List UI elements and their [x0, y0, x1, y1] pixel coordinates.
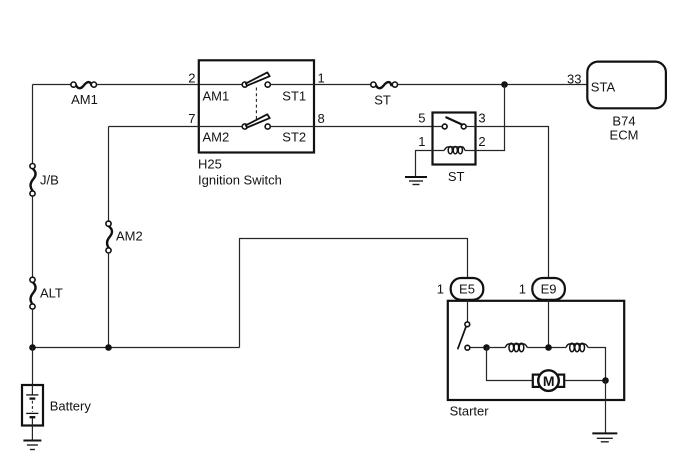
svg-text:33: 33 [567, 72, 581, 87]
wire bus to E5 [240, 239, 468, 348]
wire pin7 to AM2 vertical [109, 126, 243, 128]
wire junction to coil1 [487, 347, 506, 349]
fuse ALT [30, 277, 63, 309]
wire E9 into starter [548, 300, 550, 348]
starter switch top contact [465, 322, 470, 327]
svg-text:AM1: AM1 [203, 88, 230, 103]
svg-text:ECM: ECM [610, 128, 639, 143]
fuse J/B [30, 164, 59, 197]
junction node starter left [483, 344, 490, 351]
svg-text:2: 2 [478, 134, 485, 149]
junction node battery/bus [29, 344, 36, 351]
starter coil 2 [566, 343, 588, 351]
starter switch lever [458, 327, 466, 348]
svg-text:ST: ST [374, 92, 391, 107]
fuse ST [371, 82, 398, 107]
wire coil2 to right branch [588, 348, 605, 381]
wire AM2 to bus [108, 253, 110, 348]
ignition switch box H25 [199, 60, 314, 152]
wire left branch to motor [487, 348, 533, 381]
svg-text:ST2: ST2 [282, 129, 306, 144]
relay contact wire right [466, 126, 475, 128]
wire contact to junction [470, 347, 487, 349]
wire relay pin3 to E9 [476, 127, 549, 279]
junction node motor right [602, 377, 609, 384]
motor M [533, 370, 564, 391]
svg-text:Ignition Switch: Ignition Switch [198, 173, 282, 188]
svg-text:M: M [543, 373, 555, 389]
svg-text:E5: E5 [459, 282, 475, 297]
battery B1 [22, 385, 91, 426]
svg-text:J/B: J/B [40, 172, 59, 187]
wire fuse ST to ECM [398, 84, 588, 86]
wire ALT to bus [32, 309, 34, 347]
svg-text:H25: H25 [198, 157, 222, 172]
svg-text:AM1: AM1 [71, 92, 98, 107]
wire AM2 vertical upper [108, 127, 110, 222]
fuse AM2 [106, 221, 143, 253]
switch AM2-ST2 contacts [242, 124, 247, 129]
wire E5 into starter [467, 300, 469, 322]
relay coil [433, 147, 476, 154]
wire between J/B and ALT [32, 196, 34, 277]
wire battery to ground [31, 426, 33, 441]
wire ST1 to fuse ST [270, 84, 371, 86]
wire top horizontal left segment [33, 84, 72, 86]
connector E5 [451, 278, 484, 300]
switch AM2-ST2 lever [246, 114, 270, 127]
switch AM1-ST1 lever [246, 72, 270, 85]
svg-text:ALT: ALT [40, 286, 63, 301]
ECM box B74 [587, 62, 666, 109]
wire left vertical upper [32, 85, 34, 164]
junction node ST/relay [501, 81, 508, 88]
switch AM1-ST1 contacts [242, 82, 247, 87]
svg-text:3: 3 [478, 110, 485, 125]
starter coil 1 [505, 343, 527, 351]
wire starter to ground [605, 381, 607, 434]
svg-text:AM2: AM2 [116, 228, 143, 243]
svg-text:AM2: AM2 [203, 129, 230, 144]
fuse AM1 [71, 82, 98, 107]
bus wire bottom left [33, 347, 240, 349]
starter switch bottom contact [465, 345, 470, 350]
wire fuse AM1 to switch contact [97, 84, 243, 86]
ground starter [592, 433, 617, 441]
relay lever [446, 117, 462, 124]
svg-text:1: 1 [437, 282, 444, 297]
wire coil1 to E9 junction [527, 347, 566, 349]
wire relay pin1 to ground [416, 151, 433, 178]
svg-text:5: 5 [418, 110, 425, 125]
svg-text:B74: B74 [612, 114, 635, 129]
svg-text:STA: STA [591, 80, 616, 95]
wire relay pin2 to junction [476, 85, 505, 151]
svg-text:Battery: Battery [50, 399, 92, 414]
wire ST2 to relay [270, 126, 442, 128]
svg-text:ST1: ST1 [282, 88, 306, 103]
wire motor to right junction [565, 380, 605, 382]
battery feed wire [32, 348, 34, 386]
svg-text:1: 1 [418, 134, 425, 149]
relay contacts [442, 124, 447, 129]
svg-text:Starter: Starter [450, 403, 490, 418]
relay box ST [433, 113, 476, 165]
junction node AM2/bus [105, 344, 112, 351]
svg-text:ST: ST [448, 169, 465, 184]
svg-text:2: 2 [188, 71, 195, 86]
svg-text:1: 1 [519, 282, 526, 297]
svg-text:1: 1 [318, 71, 325, 86]
svg-text:8: 8 [318, 111, 325, 126]
ground battery [23, 441, 41, 450]
svg-text:7: 7 [188, 111, 195, 126]
starter box [448, 301, 624, 400]
dashed mechanical link [255, 88, 257, 121]
connector E9 [532, 278, 565, 300]
ground relay [405, 177, 427, 185]
svg-text:E9: E9 [541, 282, 557, 297]
junction node starter center [545, 344, 552, 351]
